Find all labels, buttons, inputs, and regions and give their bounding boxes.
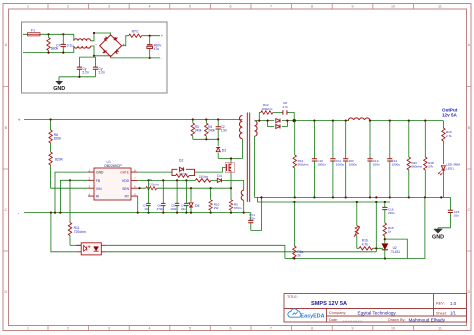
svg-text:Mahmoud Elhady: Mahmoud Elhady (409, 317, 446, 322)
svg-text:GATE: GATE (120, 171, 130, 175)
common-mode choke L (74, 39, 91, 48)
wire: VDD supply row (137, 180, 244, 190)
svg-text:150hm: 150hm (199, 175, 209, 179)
wire: secondary top to rectifier (255, 120, 444, 122)
diode D2 with parallel gate resistor (172, 169, 195, 175)
svg-text:11: 11 (438, 326, 442, 330)
resistor R18 27k (424, 121, 434, 198)
svg-text:4: 4 (149, 5, 151, 9)
svg-text:1: 1 (27, 5, 29, 9)
resistor R10 2W (209, 188, 220, 212)
diode D1 output rectifier (dual) (258, 119, 296, 129)
wire: opto lower to R16 node (375, 247, 377, 252)
wire: secondary ground rail (255, 196, 451, 198)
svg-text:D: D (467, 290, 470, 294)
svg-text:2W: 2W (214, 206, 219, 210)
node: bridge AC joints (93, 32, 95, 57)
resistor R5 670m (sense) (229, 188, 242, 212)
wire: U1 GND pin to rail (55, 172, 88, 213)
capacitor C2 1.5n (snubber) (216, 120, 227, 140)
resistor R1a 2k (divider) (293, 202, 304, 259)
svg-text:1000u: 1000u (392, 163, 401, 167)
wire: Y-cap feed (79, 56, 95, 67)
svg-text:Sheet:: Sheet: (436, 311, 447, 315)
svg-text:22u: 22u (181, 207, 186, 211)
svg-text:TITLE:: TITLE: (287, 295, 298, 299)
svg-text:8: 8 (311, 5, 313, 9)
node: secondary ground junctions (260, 196, 442, 198)
fuse F1 (28, 28, 41, 36)
svg-text:10n: 10n (454, 214, 459, 218)
net label - (primary return) (18, 210, 20, 215)
op-amp U1 OB2269CP body (94, 160, 131, 200)
wire: bridge + output to NTC (122, 36, 160, 46)
title block frame (284, 294, 467, 323)
svg-text:820k: 820k (54, 137, 62, 141)
svg-text:D4: D4 (217, 174, 221, 178)
svg-text:5: 5 (189, 5, 191, 9)
svg-text:1000u: 1000u (317, 163, 326, 167)
svg-text:2: 2 (67, 326, 69, 330)
svg-text:Drawn By:: Drawn By: (388, 318, 406, 322)
node: top rail junctions (50, 118, 220, 120)
wire: U1 RT pin down (136, 196, 139, 213)
svg-text:D5: D5 (195, 204, 199, 208)
capacitor C5 100n (170, 180, 179, 212)
svg-text:100n: 100n (170, 207, 177, 211)
resistor R3 240k (snubber) (191, 120, 202, 140)
svg-text:820K: 820K (55, 157, 64, 161)
svg-text:4.7k: 4.7k (362, 242, 368, 246)
net label OutPut 12v 5A (442, 108, 458, 118)
svg-text:100n: 100n (373, 163, 380, 167)
svg-text:RT: RT (125, 195, 129, 199)
wire: GATE to clamp network (137, 171, 172, 173)
node: secondary rail junctions (294, 120, 427, 122)
EasyEDA logo (288, 309, 325, 320)
wire: opto emitter to - rail (51, 213, 76, 252)
svg-text:Date:: Date: (329, 318, 338, 322)
svg-text:670m: 670m (234, 206, 242, 210)
wire: mask rail under L1 (349, 120, 369, 122)
svg-text:Egyital Technology: Egyital Technology (358, 310, 397, 315)
transformer T1 secondary winding (255, 121, 258, 137)
wire: gate drive to MOSFET (195, 168, 227, 173)
title block texts (287, 295, 457, 323)
ground GND (filter) (53, 81, 65, 92)
bridge polarity marks (95, 42, 125, 46)
terminal + of filter (161, 33, 164, 60)
inductor L1 (output filter) (348, 118, 370, 121)
wire: SEN row (137, 187, 231, 189)
svg-text:1.5n: 1.5n (221, 129, 227, 133)
svg-text:+: + (18, 117, 21, 122)
diode D5 zener (189, 188, 199, 212)
svg-text:2.2n: 2.2n (99, 70, 106, 74)
capacitor CY 2.2n (left) (77, 67, 89, 77)
node: cap 400V junctions (149, 35, 151, 59)
capacitor C13 100n (367, 121, 380, 198)
svg-text:EasyEDA: EasyEDA (301, 313, 325, 319)
svg-text:D: D (4, 290, 7, 294)
capacitor Cy 2.2n (right) (93, 67, 105, 77)
capacitor C6 470p (157, 180, 166, 212)
svg-text:RI: RI (96, 195, 99, 199)
node: bottom rail junctions (50, 212, 245, 214)
svg-text:11: 11 (438, 5, 442, 9)
svg-text:100ohm: 100ohm (262, 107, 273, 111)
snubber R12 100ohm + C8 4.7n over rectifier (259, 101, 294, 120)
svg-text:D3: D3 (222, 149, 226, 153)
capacitor 400V 47u (147, 36, 162, 58)
svg-text:GND: GND (432, 235, 444, 241)
resistor R13 560ohm (preload) (293, 121, 309, 198)
resistor R19 2.7k (LED series) (442, 121, 452, 164)
svg-text:C: C (4, 208, 7, 212)
wire: opto collector row (106, 245, 376, 258)
svg-text:C: C (467, 208, 470, 212)
svg-text:220n: 220n (388, 211, 395, 215)
wire: sense to pot/376 vertical (375, 202, 377, 248)
svg-text:SMPS 12V 5A: SMPS 12V 5A (311, 301, 347, 307)
svg-text:720ohm: 720ohm (74, 230, 86, 234)
svg-text:NTC: NTC (132, 29, 140, 33)
resistor R11 720ohm (FB to opto) (68, 180, 86, 245)
svg-text:47u: 47u (154, 47, 160, 51)
svg-text:12v 5A: 12v 5A (442, 113, 457, 118)
svg-text:0.1u: 0.1u (67, 44, 74, 48)
svg-text:1.0: 1.0 (450, 301, 457, 306)
svg-text:1k: 1k (388, 230, 392, 234)
svg-text:1/1: 1/1 (450, 311, 456, 316)
transformer T1 primary winding (240, 116, 243, 139)
U1 pin names (96, 171, 130, 199)
capacitor C12 16V 1000u (343, 121, 357, 198)
svg-text:470p: 470p (157, 207, 164, 211)
svg-text:6: 6 (230, 326, 232, 330)
svg-text:10: 10 (391, 5, 395, 9)
wire: primary bottom rail (24, 212, 251, 214)
svg-text:6: 6 (230, 5, 232, 9)
svg-text:2.7k: 2.7k (446, 134, 452, 138)
node: SEN row junctions (138, 187, 232, 189)
wire: TL431 cathode route box (385, 239, 408, 258)
input filter enclosure box (22, 22, 168, 93)
capacitor C11 1000u (330, 121, 344, 198)
svg-text:4.7n: 4.7n (282, 105, 288, 109)
node: VDD row junctions (147, 179, 187, 181)
svg-text:8: 8 (311, 326, 313, 330)
svg-text:R9: R9 (148, 178, 152, 182)
svg-text:REV:: REV: (436, 302, 445, 306)
svg-text:680ohm: 680ohm (411, 165, 422, 169)
wire: aux winding bottom to rail (243, 200, 245, 212)
svg-text:~: ~ (95, 42, 97, 46)
svg-text:240k: 240k (208, 129, 215, 133)
svg-text:TL431: TL431 (391, 250, 400, 254)
svg-text:7: 7 (270, 326, 272, 330)
resistor 680k (47, 34, 59, 52)
svg-text:VDD: VDD (122, 179, 130, 183)
node: sense line junctions (293, 201, 386, 203)
LED LED1 LED-3MM (438, 163, 460, 198)
U1 pin numbers (89, 168, 137, 196)
svg-text:5: 5 (189, 326, 191, 330)
svg-text:D2: D2 (179, 159, 183, 163)
svg-text:4: 4 (149, 326, 151, 330)
svg-text:CX: CX (56, 44, 61, 48)
wire: bridge - output rail (111, 57, 160, 59)
wire: AC line top (23, 33, 74, 35)
transformer T1 core (247, 113, 249, 203)
capacitor C14 1000u (387, 121, 400, 198)
svg-text:3: 3 (108, 5, 110, 9)
bridge rectifier B1 (100, 35, 122, 57)
wire: 12V sense line (second rail) (258, 197, 391, 202)
wire: U1 FB pin left (60, 179, 88, 212)
wire: drain node (218, 139, 242, 188)
shunt reference U2 TL431 (382, 244, 400, 259)
svg-text:560ohm: 560ohm (298, 163, 309, 167)
svg-text:2.2n: 2.2n (82, 70, 89, 74)
wire: Y-cap ground (59, 76, 96, 82)
capacitor C7 10n (143, 180, 151, 212)
svg-text:GND: GND (96, 171, 104, 175)
resistor 150ohm (VDD feed) (195, 175, 211, 182)
svg-text:2: 2 (67, 5, 69, 9)
wire: choke connections (74, 33, 111, 58)
svg-text:1000u: 1000u (336, 163, 345, 167)
svg-text:VIN: VIN (96, 187, 102, 191)
svg-text:20ohm: 20ohm (179, 171, 189, 175)
resistor R6 820k (49, 120, 61, 153)
transistor Q1 MOSFET (225, 163, 234, 173)
net label + (HV rail) (18, 117, 21, 122)
diode D3 (clamp) (216, 139, 226, 158)
U1 pin stubs (88, 172, 137, 196)
capacitor C4 22u (181, 180, 189, 212)
svg-text:GND: GND (53, 86, 65, 92)
svg-text:7: 7 (270, 5, 272, 9)
resistor R4 240k (snubber) (205, 120, 216, 140)
svg-text:10n: 10n (144, 207, 149, 211)
svg-text:9: 9 (352, 5, 354, 9)
svg-text:OB2269CP: OB2269CP (104, 164, 122, 168)
svg-text:1: 1 (27, 326, 29, 330)
svg-text:Company:: Company: (329, 311, 346, 315)
svg-text:720ohm: 720ohm (148, 183, 159, 187)
wire: snubber bottom bus (193, 138, 219, 140)
svg-text:2.2n: 2.2n (249, 217, 255, 221)
resistor R9 720ohm (SEN filter) (146, 178, 160, 190)
wire: AC line bottom (23, 52, 74, 54)
capacitor C10 1000u (312, 121, 326, 198)
capacitor C16 220n (compensation) (382, 202, 395, 223)
ground GND (secondary) (432, 228, 444, 241)
svg-text:3: 3 (108, 326, 110, 330)
optocoupler U4 (76, 243, 106, 255)
capacitor C15 10n (438, 197, 460, 227)
wire: secondary bottom return (254, 136, 256, 197)
transformer T1 aux winding (241, 190, 243, 200)
resistor R15 1k (383, 223, 394, 243)
svg-text:SEN: SEN (122, 187, 129, 191)
svg-text:27k: 27k (428, 165, 433, 169)
node: fuse/R junction (47, 33, 64, 35)
svg-text:2k: 2k (297, 254, 301, 258)
svg-text:LED1: LED1 (446, 166, 454, 170)
resistor 820K (49, 152, 88, 188)
capacitor CY1 2.2n (interwinding) (248, 197, 261, 230)
resistor R16 4.7k (357, 239, 382, 250)
resistor NTC (129, 29, 142, 37)
wire: feedback bottom bus (285, 197, 425, 259)
svg-text:10: 10 (391, 326, 395, 330)
svg-text:9: 9 (352, 326, 354, 330)
resistor R20 680ohm (407, 121, 423, 198)
svg-text:1000u: 1000u (349, 163, 358, 167)
potentiometer (voltage adjust) (354, 202, 360, 248)
wire: HV+ top rail (24, 119, 242, 121)
capacitor CX 0.1u (56, 34, 74, 52)
svg-text:240k: 240k (195, 129, 202, 133)
diode D4 (VDD rectifier) (217, 174, 222, 182)
svg-text:F1: F1 (31, 28, 35, 32)
